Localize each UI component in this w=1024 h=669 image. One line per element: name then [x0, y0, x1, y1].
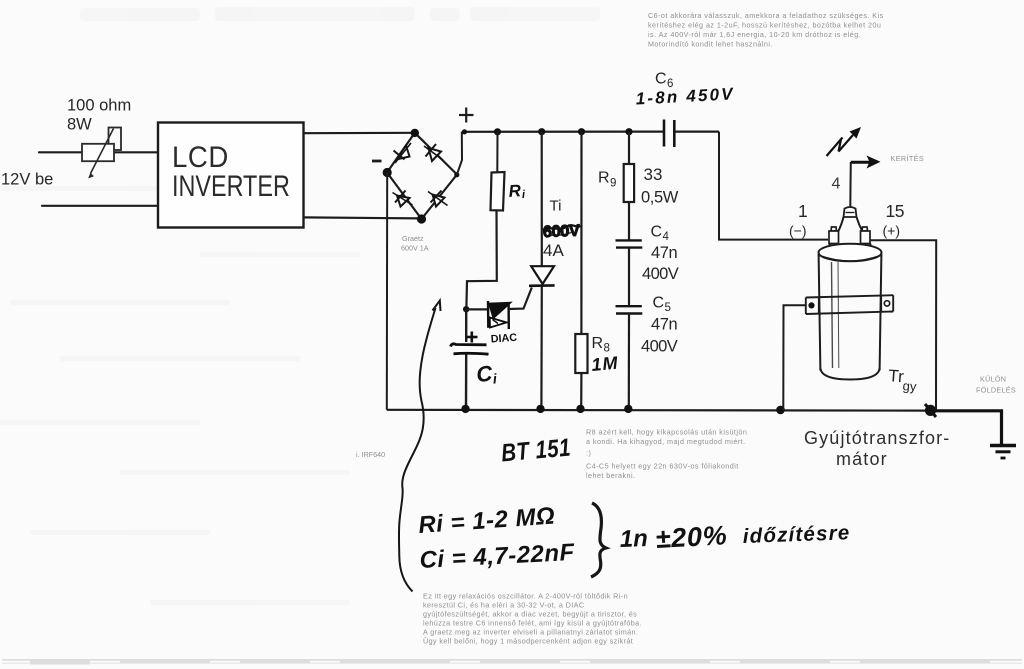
svg-text:mátor: mátor	[836, 449, 888, 469]
wire coil 15 to right rail down to bus	[868, 240, 936, 410]
svg-text:kerítéshez elég az 1-2uF, hoss: kerítéshez elég az 1-2uF, hosszú kerítés…	[648, 21, 881, 30]
node bridge top	[411, 129, 419, 137]
capacitor Ci plates (hand drawn)	[451, 344, 487, 347]
diode D4 (bottom-right edge)	[428, 191, 448, 207]
thyristor cathode bar	[529, 284, 555, 287]
svg-text:4: 4	[832, 176, 841, 193]
wire top bus left of C6	[462, 131, 664, 133]
svg-text:i: i	[521, 189, 526, 201]
ground symbol	[990, 446, 1016, 459]
wire bus to thyristor anode	[541, 132, 543, 266]
wire DIAC to thyristor gate	[509, 288, 532, 310]
svg-text:Ti: Ti	[550, 198, 562, 215]
wire C6 to coil terminal 1	[719, 132, 828, 240]
wire 12V top lead	[39, 151, 82, 153]
svg-text::): :)	[586, 449, 591, 458]
svg-text:C: C	[655, 71, 667, 88]
coil top ellipse rim	[819, 244, 882, 262]
svg-text:BT 151: BT 151	[500, 433, 572, 467]
wire 12V bottom lead	[42, 205, 158, 207]
svg-text:C: C	[651, 224, 663, 241]
wire resistor to LCD box	[114, 151, 158, 153]
node bus Ri	[494, 128, 501, 135]
svg-text:FÖLDELÉS: FÖLDELÉS	[976, 386, 1016, 395]
svg-text:Ci = 4,7-22nF: Ci = 4,7-22nF	[419, 539, 576, 574]
node bus at plus	[462, 129, 467, 134]
svg-text:R8 azért kell, hogy kikapcsolá: R8 azért kell, hogy kikapcsolás után kis…	[586, 428, 747, 437]
node Ci bottom	[461, 405, 469, 413]
note top-right C6 sizing	[648, 11, 884, 49]
svg-text:C: C	[653, 295, 665, 312]
svg-text:Ez itt egy relaxációs oszcillá: Ez itt egy relaxációs oszcillátor. A 2-4…	[423, 592, 628, 601]
coil mounting bracket	[806, 295, 893, 314]
note relaxation oscillator	[423, 592, 642, 646]
svg-text:0,5W: 0,5W	[641, 189, 679, 207]
coil bottom ellipse	[820, 369, 879, 380]
capacitor C4 plates	[616, 240, 643, 247]
svg-text:DIAC: DIAC	[490, 332, 517, 346]
svg-text:1-8n 450V: 1-8n 450V	[635, 84, 735, 108]
svg-text:R: R	[508, 181, 522, 201]
fence output arrow	[851, 161, 870, 164]
svg-text:(+): (+)	[883, 223, 901, 239]
diode D3 (bottom-left edge)	[393, 191, 413, 207]
svg-text:keresztül Ci, és ha eléri a 30: keresztül Ci, és ha eléri a 30-32 V-ot, …	[423, 601, 584, 610]
diode D1 (top-left edge)	[394, 143, 412, 163]
svg-text:1n: 1n	[619, 525, 648, 553]
svg-text:Graetz: Graetz	[402, 234, 424, 243]
bridge diamond wires	[387, 133, 457, 219]
svg-text:gy: gy	[902, 378, 917, 394]
svg-text:47n: 47n	[651, 316, 678, 334]
node bus Ti	[538, 128, 545, 135]
coil cone tower	[829, 217, 871, 245]
node bridge left (minus)	[383, 168, 392, 177]
svg-text:R: R	[598, 170, 610, 187]
label plus of Ci	[467, 332, 478, 343]
node gate junction	[463, 306, 469, 312]
svg-text:5: 5	[665, 302, 671, 314]
bracket left hole (wire attach, filled)	[808, 302, 814, 308]
faint scan ghost band bottom	[2, 659, 1022, 665]
svg-text:A graetz meg az inverter elvis: A graetz meg az inverter elviseli a pill…	[423, 628, 638, 637]
svg-text:KERÍTÉS: KERÍTÉS	[891, 154, 925, 163]
svg-text:lehet berakni.: lehet berakni.	[586, 471, 635, 480]
wire C4 to C5	[628, 248, 630, 306]
spark symbol arrow	[827, 135, 854, 156]
svg-text:i. IRF640: i. IRF640	[356, 450, 385, 459]
resistor 100 ohm 8W (adjustable)	[82, 128, 121, 178]
coil body inner shading lines	[832, 262, 833, 368]
node bridge right (plus)	[454, 172, 459, 177]
svg-text:gyújtófeszültségét, akkor a di: gyújtófeszültségét, akkor a diac vezet, …	[423, 610, 637, 619]
resistor Ri	[491, 172, 505, 211]
note R8 purpose	[586, 428, 747, 481]
resistor R9	[624, 164, 634, 202]
svg-text:400V: 400V	[642, 265, 679, 283]
wire coil bracket to left rail down to bus	[783, 305, 805, 410]
diode D2 (top-right edge)	[424, 144, 443, 161]
node Ti bottom	[536, 405, 544, 413]
wire R8 to bus	[580, 373, 582, 409]
svg-text:1M: 1M	[591, 353, 620, 375]
wire cathode down to bus	[540, 286, 543, 409]
capacitor C5 plates	[616, 306, 643, 313]
svg-text:Úgy kell belőni, hogy 1 másodp: Úgy kell belőni, hogy 1 másodpercenként …	[423, 637, 633, 646]
minus rail down left side	[386, 173, 388, 410]
DIAC	[488, 301, 510, 329]
svg-text:KÜLÖN: KÜLÖN	[980, 375, 1006, 384]
svg-text:(−): (−)	[789, 223, 807, 239]
wire LCD to bridge top (AC1)	[304, 132, 415, 135]
svg-text:600V: 600V	[543, 222, 581, 241]
svg-text:100 ohm: 100 ohm	[67, 97, 131, 115]
wire R9 to C4	[628, 202, 630, 240]
label minus sign	[372, 160, 382, 163]
svg-text:időzítésre: időzítésre	[742, 521, 850, 548]
svg-text:a kondi. Ha kihagyod, majd meg: a kondi. Ha kihagyod, majd megtudod miér…	[586, 437, 746, 446]
svg-text:9: 9	[610, 178, 616, 190]
wire node down to Ci	[465, 309, 467, 342]
wire LCD to bridge bottom (AC2)	[304, 217, 421, 218]
svg-text:4: 4	[663, 231, 670, 243]
node R8 bottom	[576, 405, 584, 413]
svg-text:INVERTER: INVERTER	[172, 169, 290, 202]
thyristor Ti triangle	[531, 266, 554, 284]
curvy annotation arrow	[399, 308, 436, 592]
svg-text:C6-ot akkorára válasszuk, amek: C6-ot akkorára válasszuk, amekkora a fel…	[648, 11, 884, 20]
coil terminal left (1)	[829, 227, 839, 244]
coil body	[819, 254, 821, 371]
svg-text:4A: 4A	[543, 241, 564, 260]
svg-text:R: R	[592, 335, 604, 352]
node bus R9	[625, 128, 632, 135]
wire top bus right of C6	[675, 131, 720, 133]
wire bottom bus	[387, 409, 931, 412]
coil HV nub	[844, 207, 857, 217]
svg-text:Ri = 1-2 MΩ: Ri = 1-2 MΩ	[418, 502, 556, 538]
resistor R8	[575, 334, 587, 373]
wire C5 to bottom bus	[628, 314, 630, 410]
wire node to DIAC	[466, 308, 487, 310]
label 600V overwritten	[543, 222, 582, 241]
svg-text:12V be: 12V be	[1, 171, 53, 189]
capacitor C6 plates	[664, 120, 674, 148]
wire bus to R8	[580, 132, 582, 334]
LCD INVERTER box U1	[158, 123, 304, 228]
svg-text:Motorindító kondit lehet haszn: Motorindító kondit lehet használni.	[648, 40, 773, 49]
svg-text:8W: 8W	[67, 116, 92, 134]
node C5 bottom	[624, 405, 632, 413]
node bridge bottom	[417, 214, 426, 223]
wire bus to R9	[628, 132, 630, 164]
svg-text:47n: 47n	[651, 244, 678, 262]
svg-text:±20%: ±20%	[655, 520, 729, 554]
svg-text:i: i	[492, 370, 498, 386]
wire bus to Ri	[496, 132, 498, 172]
bracket right hole	[884, 301, 889, 306]
svg-text:33: 33	[644, 165, 663, 184]
faint scan ghost strip top	[80, 7, 600, 21]
HV lead wire up from nub	[849, 162, 852, 208]
node coil left bottom	[776, 406, 785, 415]
node ground junction blob	[925, 405, 936, 416]
wire bridge plus up to bus	[457, 132, 462, 175]
svg-text:1: 1	[798, 201, 808, 221]
svg-text:600V 1A: 600V 1A	[401, 244, 429, 253]
svg-text:lehúzza testre C6 innenső felé: lehúzza testre C6 innenső felét, ami így…	[423, 619, 642, 628]
faint scan streaks left	[0, 186, 360, 605]
wire Ri down and jog left	[466, 211, 496, 307]
label plus sign	[459, 108, 474, 123]
svg-text:15: 15	[886, 201, 904, 221]
big brace	[591, 503, 606, 577]
svg-text:C4-C5 helyett egy 22n 630V-os: C4-C5 helyett egy 22n 630V-os fóliakondi…	[586, 462, 739, 471]
svg-text:is. Az 400V-ról már 1,6J energ: is. Az 400V-ról már 1,6J energia, 10-20 …	[648, 30, 861, 39]
coil terminal right (15)	[861, 227, 871, 244]
svg-text:400V: 400V	[641, 338, 678, 356]
svg-text:Gyújtótranszfor-: Gyújtótranszfor-	[804, 428, 950, 448]
wire to separate earth	[933, 411, 1002, 445]
node bus R8	[578, 128, 585, 135]
wire Ci down to bottom bus	[465, 355, 468, 410]
